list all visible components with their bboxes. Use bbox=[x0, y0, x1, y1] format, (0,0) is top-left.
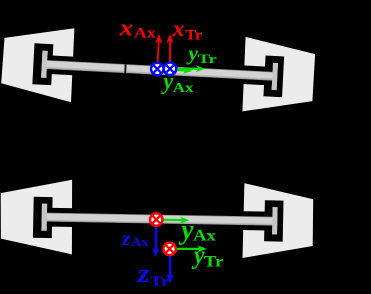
svg-text:z: z bbox=[121, 228, 131, 250]
svg-text:Ax: Ax bbox=[173, 81, 194, 96]
wheel right (roll view) bbox=[242, 37, 315, 112]
wheel right (yaw view) bbox=[243, 183, 314, 258]
svg-text:y: y bbox=[161, 69, 174, 95]
axle journal outline right (roll view) bbox=[243, 65, 275, 72]
hub left (yaw view) bbox=[33, 197, 53, 238]
wheel left (roll view) bbox=[1, 28, 74, 102]
origin circle Tr (blue) bbox=[164, 63, 176, 75]
axle rod (roll view) bbox=[44, 60, 276, 80]
svg-text:Tr: Tr bbox=[198, 51, 217, 66]
svg-text:Ax: Ax bbox=[131, 235, 149, 249]
hub right (yaw view) bbox=[264, 200, 283, 241]
origin circle Ax (red) bbox=[150, 213, 162, 225]
arrow z_Ax bbox=[154, 220, 157, 251]
svg-text:x: x bbox=[172, 16, 185, 41]
svg-text:z: z bbox=[137, 259, 151, 288]
flange front right (roll view) bbox=[272, 63, 278, 90]
arrow x_Ax bbox=[157, 40, 158, 69]
arrow y_Tr (bottom) bbox=[170, 248, 201, 250]
wheel left (yaw view) bbox=[1, 180, 72, 255]
hub left (roll view) bbox=[32, 43, 53, 85]
hub right (roll view) bbox=[263, 56, 284, 98]
axle journal outline left (roll view) bbox=[45, 55, 76, 62]
arrow z_Tr bbox=[169, 249, 172, 277]
axle rod (yaw view) bbox=[44, 213, 276, 225]
flange front left (roll view) bbox=[41, 51, 48, 78]
axle journal outline right (yaw view) bbox=[242, 211, 275, 217]
origin circle Tr (red) bbox=[163, 243, 175, 255]
arrow y_Ax (bottom) bbox=[156, 219, 183, 222]
rod joint tick bbox=[124, 64, 126, 73]
arrow x_Tr bbox=[169, 40, 171, 68]
svg-text:x: x bbox=[119, 15, 134, 41]
origin circle Ax (blue) bbox=[151, 63, 163, 75]
flange front left (yaw view) bbox=[41, 204, 47, 231]
svg-text:Tr: Tr bbox=[150, 274, 169, 289]
arrow y_Ax (top) bbox=[157, 69, 186, 70]
svg-text:y: y bbox=[178, 215, 194, 246]
arrow y_Tr (top) bbox=[170, 68, 199, 70]
axle journal outline left (yaw view) bbox=[45, 208, 76, 214]
svg-text:Ax: Ax bbox=[134, 25, 157, 41]
flange front right (yaw view) bbox=[272, 207, 278, 234]
svg-text:Tr: Tr bbox=[204, 254, 224, 271]
